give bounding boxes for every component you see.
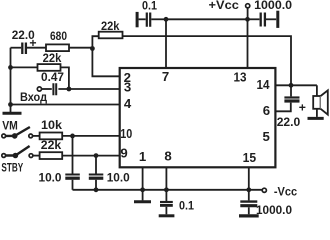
wire pin 15 down (248, 167, 250, 200)
svg-text:0.47: 0.47 (41, 70, 64, 84)
wire pin 1 to ground (142, 167, 144, 200)
wire pin 13 up to +Vcc (247, 19, 249, 68)
capacitor C 1000.0 bottom plates (240, 200, 257, 202)
wire node up to 22k feedback resistor (92, 36, 99, 48)
node pin14 output (289, 83, 294, 88)
lead ground to C0.1 top (139, 18, 146, 20)
svg-text:STBY: STBY (1, 161, 23, 175)
wire SW1 to R10k (33, 135, 40, 137)
resistor R 10k (40, 133, 63, 140)
wire C1000 top to ground bar (266, 18, 276, 20)
svg-text:3: 3 (124, 80, 131, 95)
node 680/22k/pin2 (90, 46, 95, 51)
svg-text:VM: VM (2, 119, 18, 133)
wire C0.1 to ground (165, 207, 167, 215)
node pin15 rail (246, 187, 251, 192)
resistor R 22k feedback top (99, 32, 123, 39)
node 22k lower on left rail (8, 65, 13, 70)
wire R680 to node (69, 47, 92, 49)
node pin4 on left rail (8, 102, 13, 107)
capacitor C 10.0 B plates (89, 174, 104, 176)
wire feedback rail to pin 14 (123, 36, 292, 85)
svg-text:+: + (29, 36, 36, 50)
wire C1000 to ground (248, 207, 250, 214)
svg-text:22k: 22k (41, 138, 62, 152)
capacitor C 10.0 A plates (65, 174, 80, 176)
-Vcc terminal (262, 188, 266, 192)
wire R10k to pin 10 (62, 135, 120, 137)
SW1 terminals (2, 134, 6, 138)
capacitor C 0.1 bottom plates (160, 201, 173, 203)
switch SW1 VM lever (6, 127, 30, 136)
svg-text:13: 13 (234, 70, 247, 85)
ground under C1000 (239, 214, 259, 217)
ground under pin 1 (134, 200, 151, 203)
svg-text:10: 10 (120, 126, 132, 141)
wire pin 7 up to +Vcc rail (165, 19, 167, 68)
svg-text:680: 680 (50, 29, 67, 43)
resistor R 22k standby (40, 152, 63, 159)
node pin8 rail (164, 187, 169, 192)
input terminal lead (42, 88, 52, 90)
svg-text:4: 4 (124, 96, 132, 111)
capacitor C 22.0 output plates (284, 96, 299, 98)
node pin10 (70, 134, 75, 139)
ground bar of C0.1 top (136, 12, 139, 27)
svg-text:10k: 10k (41, 118, 62, 132)
SW2 terminals (2, 154, 6, 158)
svg-text:15: 15 (243, 150, 257, 165)
wire pin 8 down (165, 167, 167, 201)
switch SW2 pivot (13, 153, 19, 159)
node C10.0B rail (94, 187, 99, 192)
wire C22.0 to pin 6 (275, 103, 291, 112)
wire R22k to pin 9 (62, 155, 120, 157)
wire ground rail to pin 4 (11, 104, 120, 106)
resistor R 22k lower (38, 64, 61, 71)
svg-text:10.0: 10.0 (107, 170, 130, 184)
wire 22k lower left lead (11, 66, 38, 68)
+Vcc rail wire (166, 18, 248, 20)
resistor R 680 (46, 44, 69, 51)
svg-text:1000.0: 1000.0 (256, 203, 292, 217)
node pin7 Vcc (164, 17, 169, 22)
wire C0.1 top to pin7 node (151, 18, 166, 20)
switch SW1 pivot (12, 133, 18, 139)
svg-text:Вход: Вход (20, 90, 47, 104)
node pin9 (94, 153, 99, 158)
wire 0.47 to pin 3 (58, 88, 119, 90)
svg-text:22k: 22k (101, 19, 120, 33)
svg-text:1: 1 (139, 149, 146, 164)
wire pin 14 to speaker (275, 84, 317, 86)
svg-text:22k: 22k (43, 51, 62, 65)
wire node down to C22.0 out (290, 85, 292, 96)
svg-text:5: 5 (263, 129, 270, 144)
wire node to C1000 top (248, 18, 260, 20)
speaker LS1 (313, 96, 320, 109)
bottom rail wire (73, 189, 263, 191)
svg-text:6: 6 (263, 103, 270, 118)
svg-text:0.1: 0.1 (142, 0, 157, 13)
wire cap to R680 (27, 47, 46, 49)
ground under C0.1 (159, 214, 175, 217)
svg-text:10.0: 10.0 (39, 170, 62, 184)
capacitor C 0.1 top plates (147, 13, 150, 27)
svg-text:-Vcc: -Vcc (274, 185, 297, 199)
terminal circles (2, 4, 267, 193)
node pin13 Vcc (245, 17, 250, 22)
wire C10.0B to bottom rail (95, 180, 97, 190)
svg-text:+: + (299, 101, 306, 115)
wire 22k to pin3 node (61, 67, 69, 89)
wire 22.0 cap left lead (11, 47, 22, 49)
wire speaker top lead (316, 85, 318, 96)
capacitor C 0.47 (53, 83, 56, 95)
wire pin9 node down to C10.0 B (95, 156, 97, 174)
svg-text:0.1: 0.1 (179, 199, 194, 213)
svg-text:1000.0: 1000.0 (254, 0, 292, 12)
node pin1 rail (140, 187, 145, 192)
svg-text:8: 8 (164, 149, 171, 164)
svg-text:22.0: 22.0 (277, 115, 301, 129)
wire +Vcc terminal down (247, 8, 249, 19)
svg-text:14: 14 (257, 77, 271, 92)
svg-text:+Vcc: +Vcc (209, 0, 239, 12)
svg-text:9: 9 (120, 146, 127, 161)
switch SW2 STBY lever (6, 146, 30, 156)
ground symbol left input (3, 112, 22, 115)
input terminal (37, 87, 41, 91)
ground under speaker (308, 117, 324, 120)
+Vcc terminal (246, 4, 250, 8)
ground bar of C1000 top (276, 11, 279, 28)
capacitor C 22.0 input electrolytic (22, 43, 26, 55)
wire pin10 node down to C10.0 A (72, 136, 74, 174)
wire C10.0A to bottom rail (72, 180, 74, 190)
svg-text:7: 7 (162, 69, 169, 84)
op-amp IC U1 body (120, 68, 276, 167)
wire speaker bottom lead (316, 109, 318, 117)
wire left vertical rail (10, 48, 12, 113)
capacitor C 1000.0 top plates (261, 13, 265, 27)
node pin3 (67, 87, 72, 92)
wire node down to pin 2 (92, 48, 119, 77)
wire SW2 to R22k (33, 155, 40, 157)
